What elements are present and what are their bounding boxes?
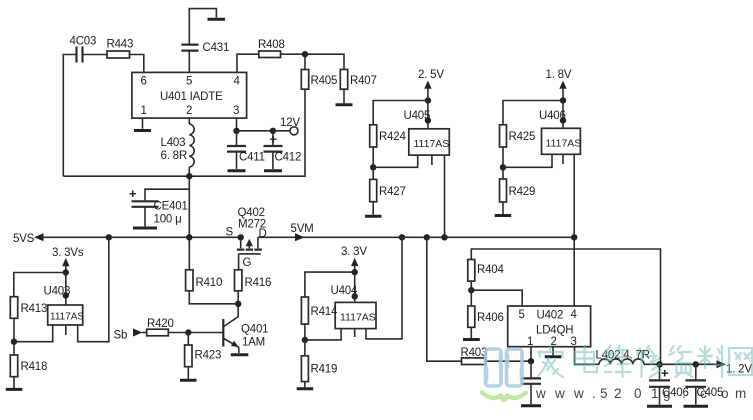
svg-text:R413: R413 — [21, 303, 48, 315]
svg-text:6. 8R: 6. 8R — [161, 150, 188, 162]
ground (C406) — [647, 405, 672, 408]
wire (U403 input from bus) — [78, 237, 109, 341]
svg-text:.: . — [592, 386, 596, 401]
svg-text:D: D — [259, 228, 267, 240]
resistor R418 — [10, 342, 47, 388]
node (R414/R419/adjust) — [302, 337, 308, 343]
watermark book logo — [482, 349, 526, 400]
regulator U406 1117AS — [539, 110, 581, 164]
regulator U405 1117AS — [404, 110, 450, 165]
svg-text:3. 3V: 3. 3V — [341, 246, 367, 258]
wire (R443 to U401 pin6) — [130, 55, 144, 73]
node (U405 out pin) — [425, 117, 431, 123]
watermark text 家电维修资料网 — [538, 346, 752, 377]
net 3.3V — [341, 246, 367, 272]
op-amp U401 IADTE — [132, 72, 247, 118]
svg-text:6: 6 — [141, 76, 147, 88]
ground (R423) — [180, 379, 197, 382]
svg-text:5: 5 — [519, 309, 525, 321]
wire (Q401 base) — [168, 332, 223, 334]
wire (R424 bottom) — [372, 147, 374, 179]
wire (feedback line) — [471, 249, 660, 364]
svg-text:C431: C431 — [203, 42, 230, 54]
node (U406 out pin) — [560, 117, 566, 123]
resistor R405 — [301, 70, 337, 90]
resistor R425 — [500, 125, 536, 147]
resistor R406 — [468, 306, 504, 338]
ground (C411) — [228, 169, 246, 172]
wire (5V bus left) — [44, 236, 241, 238]
wire (R410 bottom) — [189, 291, 238, 304]
svg-text:2: 2 — [614, 386, 622, 401]
wire (U402 pin3 output) — [575, 347, 717, 365]
resistor R403 — [461, 347, 488, 365]
ground (U401 pin1) — [134, 129, 151, 132]
svg-text:U402: U402 — [537, 310, 564, 322]
svg-text:5VM: 5VM — [291, 223, 314, 235]
svg-text:.: . — [682, 386, 686, 401]
svg-text:C412: C412 — [275, 152, 302, 164]
svg-text:U405: U405 — [404, 110, 431, 122]
resistor R443 — [107, 39, 134, 59]
transistor Q402 M272 — [226, 207, 267, 270]
watermark url www.5201g.com — [535, 386, 746, 401]
node (U404 out pin) — [352, 293, 358, 299]
node (bus/U406/U402) — [571, 234, 577, 240]
svg-text:1117AS: 1117AS — [546, 138, 582, 150]
svg-text:1AM: 1AM — [242, 337, 265, 349]
wire (U403 adjust) — [14, 325, 53, 342]
svg-text:1. 8V: 1. 8V — [546, 69, 572, 81]
wire (U406 adjust) — [503, 154, 552, 167]
resistor R420 — [147, 318, 174, 336]
svg-text:R410: R410 — [196, 277, 223, 289]
node (3.3V tap) — [352, 269, 358, 275]
svg-text:5: 5 — [600, 386, 608, 401]
svg-text:L403: L403 — [161, 137, 186, 149]
svg-text:m: m — [735, 386, 746, 401]
node (bus/R403 feed) — [424, 234, 430, 240]
svg-text:R407: R407 — [350, 75, 377, 87]
input Sb — [114, 329, 147, 342]
wire (U402 pin1) — [530, 347, 532, 362]
wire (U404 adjust) — [305, 329, 341, 340]
svg-text:R414: R414 — [311, 306, 338, 318]
capacitor 4C03 — [70, 36, 97, 63]
resistor R413 — [10, 297, 47, 319]
svg-text:w: w — [535, 386, 546, 401]
ground (C412) — [264, 169, 282, 172]
node (R424/R427/adjust) — [370, 164, 376, 170]
ground (R418) — [6, 388, 23, 391]
svg-text:3: 3 — [571, 336, 577, 348]
node (pin3 / C411) — [233, 128, 239, 134]
wire (bus to R403) — [427, 237, 531, 361]
node (C406 tap) — [656, 361, 662, 367]
ground (Q401 emitter) — [231, 353, 249, 356]
inductor L403 — [161, 118, 195, 167]
wire (return line) — [63, 89, 305, 176]
net 5VS — [13, 233, 44, 245]
node (U403 out pin) — [63, 292, 69, 298]
svg-text:12V: 12V — [280, 117, 300, 129]
ground (R406) — [463, 338, 480, 341]
wire (U401 pin3 down) — [236, 118, 238, 131]
wire (R416 bottom to Q401 collector) — [237, 291, 239, 317]
resistor R424 — [370, 125, 407, 147]
svg-text:Sb: Sb — [114, 330, 128, 342]
inductor L402 — [596, 350, 650, 365]
svg-text:1: 1 — [651, 386, 659, 401]
resistor R416 — [235, 270, 272, 291]
svg-text:R443: R443 — [107, 39, 134, 51]
resistor R423 — [185, 333, 222, 380]
svg-text:4: 4 — [234, 76, 241, 88]
svg-text:+: + — [270, 132, 278, 147]
node (1.8V tap) — [560, 97, 566, 103]
svg-text:R404: R404 — [477, 264, 504, 276]
ground (U402 pin2) — [545, 347, 562, 357]
node (pin1/R403) — [528, 358, 534, 364]
ground (C405) — [684, 405, 709, 408]
svg-text:1117AS: 1117AS — [50, 312, 84, 323]
svg-text:U404: U404 — [331, 285, 358, 297]
ground (R427) — [365, 215, 382, 218]
wire (R404 to R406) — [470, 281, 472, 306]
svg-text:R424: R424 — [379, 131, 406, 143]
resistor R408 — [258, 39, 285, 58]
svg-text:1: 1 — [141, 105, 147, 117]
svg-text:R429: R429 — [509, 186, 536, 198]
ground (pin1 bypass) — [521, 404, 541, 407]
svg-text:R406: R406 — [477, 312, 504, 324]
capacitor C412 — [264, 131, 302, 169]
wire (tap to R424 / U405 out) — [373, 101, 428, 129]
net 5VM — [291, 223, 314, 241]
wire (U401 pin4 to R408) — [237, 54, 259, 72]
wire (U402 pin4 from bus) — [573, 237, 575, 306]
node (2.5V tap) — [425, 97, 431, 103]
transistor Q401 1AM — [223, 317, 268, 353]
node (return/L403) — [186, 173, 192, 179]
node (R404/R406/pin5) — [468, 287, 474, 293]
net 1.8V — [546, 69, 572, 101]
svg-text:R418: R418 — [21, 361, 48, 373]
svg-text:R423: R423 — [195, 350, 222, 362]
IC U402 LD4QH — [508, 306, 591, 348]
ground (R429) — [495, 214, 512, 217]
svg-text:c: c — [700, 386, 707, 401]
svg-text:+: + — [661, 366, 669, 381]
capacitor (pin1 bypass) — [521, 361, 541, 404]
svg-text:w: w — [573, 386, 584, 401]
wire (R414 bottom) — [304, 324, 306, 340]
wire (R407 to ground) — [343, 89, 345, 103]
wire (tap to R414 / U404 out) — [305, 272, 355, 302]
node (R425/R429/adjust) — [500, 164, 506, 170]
wire (U406 input from bus) — [573, 154, 575, 237]
svg-text:R405: R405 — [311, 75, 338, 87]
node (3.3Vs tap) — [63, 269, 69, 275]
svg-text:3. 3Vs: 3. 3Vs — [52, 247, 84, 259]
svg-text:3: 3 — [233, 105, 239, 117]
svg-text:R419: R419 — [311, 364, 338, 376]
svg-text:w: w — [554, 386, 565, 401]
svg-text:C411: C411 — [239, 152, 265, 164]
svg-text:CE401: CE401 — [154, 201, 188, 213]
svg-text:U406: U406 — [539, 110, 566, 122]
svg-text:Q402: Q402 — [238, 207, 265, 219]
node (C405 tap) — [693, 361, 699, 367]
resistor R414 — [301, 297, 338, 324]
svg-text:g: g — [663, 386, 671, 401]
wire (C431 top to ground) — [189, 9, 216, 45]
wire (tap to R425 / U406 out) — [503, 101, 563, 129]
wire (R408 to R405/R407) — [281, 54, 345, 69]
terminal 12V — [280, 117, 300, 135]
svg-text:R425: R425 — [509, 131, 536, 143]
wire (left loop) — [63, 55, 107, 177]
svg-text:U403: U403 — [44, 286, 71, 298]
svg-text:2: 2 — [551, 336, 557, 348]
capacitor C431 — [181, 42, 229, 54]
svg-text:1117AS: 1117AS — [340, 312, 376, 324]
capacitor C405 — [686, 364, 724, 404]
wire (12V rail) — [237, 130, 291, 132]
wire (U405 adjust) — [373, 155, 418, 167]
regulator U404 1117AS — [331, 285, 377, 337]
svg-text:4C03: 4C03 — [70, 36, 97, 48]
svg-text:R408: R408 — [258, 39, 285, 51]
svg-text:S: S — [226, 227, 234, 239]
node (bus/R410) — [186, 234, 192, 240]
net 1.2V — [717, 360, 753, 375]
resistor R419 — [301, 340, 337, 387]
wire (U405 input from bus) — [444, 155, 446, 237]
net 2.5V — [418, 69, 444, 101]
svg-text:2. 5V: 2. 5V — [418, 69, 444, 81]
svg-text:1: 1 — [527, 336, 533, 348]
wire (U404 input from bus) — [366, 237, 402, 339]
wire (5V bus right) — [258, 236, 574, 238]
node (bus/U405) — [441, 234, 447, 240]
svg-text:5: 5 — [186, 76, 192, 88]
svg-text:G: G — [243, 257, 252, 269]
svg-text:0: 0 — [634, 386, 642, 401]
capacitor C406 — [649, 364, 689, 404]
svg-text:R403: R403 — [461, 347, 488, 359]
svg-text:R416: R416 — [245, 277, 272, 289]
svg-text:2: 2 — [186, 105, 192, 117]
svg-text:U401 IADTE: U401 IADTE — [160, 91, 223, 103]
resistor R410 — [186, 270, 223, 291]
svg-text:100 μ: 100 μ — [154, 214, 182, 226]
resistor R427 — [370, 179, 406, 214]
ground (CE401) — [133, 227, 157, 230]
resistor R404 — [468, 260, 505, 282]
node (R410/R416) — [235, 301, 241, 307]
capacitor CE401 — [129, 186, 189, 226]
svg-text:1117AS: 1117AS — [414, 138, 450, 150]
svg-text:4: 4 — [571, 309, 578, 321]
wire (R425 bottom) — [502, 147, 504, 179]
svg-text:R427: R427 — [379, 186, 406, 198]
regulator U403 1117AS — [44, 286, 85, 336]
node (R413/R418/adjust) — [11, 339, 17, 345]
svg-text:R420: R420 — [147, 318, 174, 330]
wire (C431 to U401 pin5) — [188, 51, 190, 73]
resistor R429 — [500, 179, 536, 214]
wire (L403 bottom to R410 top) — [188, 167, 190, 270]
resistor R407 — [340, 70, 376, 90]
node (C412 tap) — [270, 128, 276, 134]
node (base/R423) — [185, 329, 191, 335]
svg-text:+: + — [129, 186, 137, 201]
wire (tap to R413 / U403 out) — [14, 273, 66, 306]
ground (R407) — [336, 103, 353, 106]
wire (U401 pin1) — [142, 118, 144, 129]
wire (divider to pin5) — [471, 290, 522, 306]
svg-text:LD4QH: LD4QH — [536, 325, 573, 337]
node (Q402 source) — [238, 234, 244, 240]
ground (R419) — [297, 387, 314, 390]
svg-text:o: o — [721, 386, 729, 401]
net 3.3Vs — [52, 247, 84, 273]
node (R408/R405/R407) — [302, 51, 308, 57]
node (bus/U403) — [106, 234, 112, 240]
svg-text:5VS: 5VS — [13, 233, 35, 245]
ground (top) — [208, 18, 226, 21]
node (bus/U404) — [399, 234, 405, 240]
svg-text:Q401: Q401 — [241, 324, 268, 336]
capacitor C411 — [227, 131, 265, 169]
wire (R413 bottom) — [13, 318, 15, 341]
